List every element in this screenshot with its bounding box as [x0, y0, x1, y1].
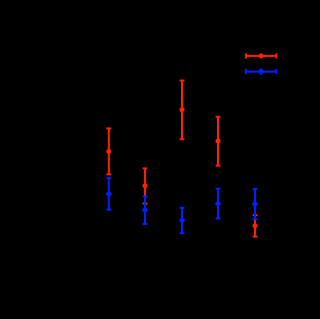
red series (circle markers) — [106, 81, 257, 237]
red errorbar point 4 — [215, 117, 220, 166]
legend red entry — [246, 53, 276, 58]
blue series (diamond markers) — [106, 178, 258, 233]
red errorbar point 5 — [252, 215, 257, 236]
blue errorbar point 5 — [252, 189, 257, 219]
blue errorbar point 3 — [179, 208, 184, 233]
legend blue entry — [246, 69, 276, 75]
red errorbar point 1 — [106, 128, 111, 174]
blue errorbar point 2 — [142, 196, 147, 224]
blue errorbar point 4 — [215, 189, 220, 219]
red errorbar point 2 — [142, 168, 147, 203]
blue errorbar point 1 — [106, 178, 111, 210]
red errorbar point 3 — [179, 81, 184, 140]
